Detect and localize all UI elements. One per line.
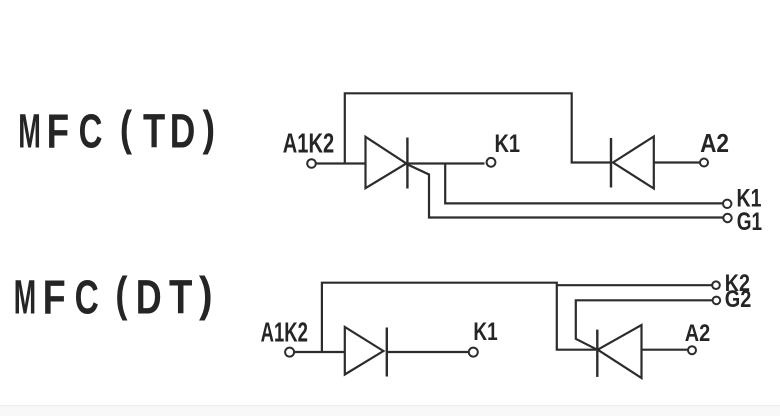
svg-text:F: F [47,105,70,159]
svg-text:C: C [75,269,99,324]
svg-text:): ) [203,102,216,156]
svg-text:(: ( [115,268,128,322]
svg-text:G1: G1 [737,207,762,235]
svg-text:T: T [169,270,193,324]
svg-text:M: M [14,270,36,324]
svg-text:A2: A2 [685,319,710,346]
svg-text:G2: G2 [725,285,752,312]
svg-text:K1: K1 [495,130,521,158]
svg-text:F: F [43,271,66,325]
svg-text:M: M [18,104,41,158]
svg-text:D: D [170,104,196,158]
svg-text:D: D [136,271,162,326]
svg-text:A1K2: A1K2 [261,318,308,349]
svg-text:T: T [143,105,165,159]
svg-text:C: C [79,103,103,158]
svg-text:): ) [199,267,213,321]
svg-text:A2: A2 [700,130,729,159]
svg-text:K1: K1 [473,317,497,345]
svg-text:(: ( [120,102,133,156]
svg-text:A1K2: A1K2 [283,128,334,159]
